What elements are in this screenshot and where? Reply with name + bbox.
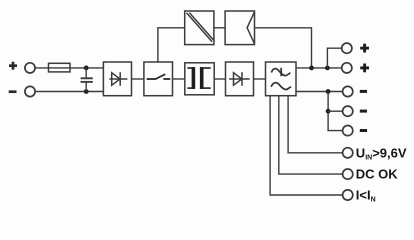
wire input minus line — [35, 91, 103, 93]
capacitor C1 — [81, 68, 93, 92]
wire plus rail — [296, 67, 342, 69]
label + (input plus) — [9, 62, 17, 70]
terminal output +1 — [342, 43, 352, 53]
block U6 feedback box (chevron symbol) — [225, 11, 254, 45]
switch S1 (inside U2) — [147, 74, 171, 79]
wire T1 to U3 — [214, 78, 225, 80]
node minus rail junction 2 — [326, 109, 331, 114]
block U1 input rectifier box — [103, 62, 131, 96]
node junction minus — [84, 89, 89, 94]
node minus rail junction 1 — [326, 89, 331, 94]
symbol diagonal lines (inside U5) — [187, 13, 214, 42]
wire U3 to U4 — [254, 78, 266, 80]
block U5 isolation converter box (diagonal symbol) — [185, 11, 214, 45]
wire U2 top to isolation box — [158, 28, 185, 62]
label - (output 2) — [360, 110, 367, 113]
diode D2 (inside U3) — [229, 72, 250, 86]
diode D1 (inside U1) — [109, 72, 127, 86]
label - (output 3) — [360, 129, 367, 132]
wire U1 to U2 — [132, 78, 144, 80]
svg-text:UIN>9,6V: UIN>9,6V — [356, 145, 407, 161]
wire signal I<In — [270, 96, 343, 195]
terminal input - — [25, 86, 35, 96]
block U4 output filter box — [266, 62, 297, 96]
block T1 transformer box — [185, 63, 214, 95]
terminal output -1 — [343, 86, 353, 96]
wire branch to plus terminal 1 — [327, 48, 341, 68]
terminal input + — [25, 63, 35, 73]
node junction plus — [84, 66, 89, 71]
label + (output 2) — [360, 64, 369, 73]
terminal signal I<In — [343, 190, 353, 200]
label - (output 1) — [360, 90, 367, 93]
symbol chopped sine (inside U4) — [271, 68, 290, 76]
wire minus rail — [296, 91, 343, 93]
wire U2 to T1 — [173, 78, 185, 80]
label + (output 1) — [360, 44, 369, 53]
wire signal Uin — [288, 96, 343, 153]
symbol chevron (inside U6) — [247, 12, 254, 44]
block U2 switching stage box — [144, 62, 173, 96]
wire signal DC OK — [279, 96, 343, 174]
wire branch to minus terminal 2 — [328, 110, 342, 112]
wire minus vertical branch — [328, 92, 342, 131]
terminal output -3 — [343, 126, 353, 136]
fuse F1 — [49, 63, 71, 72]
svg-text:DC OK: DC OK — [356, 167, 399, 182]
wire U6 to output plus rail — [255, 28, 312, 68]
wire U5 to U6 — [214, 27, 225, 29]
node plus rail junction 1 — [309, 66, 314, 71]
terminal signal DC OK — [343, 169, 353, 179]
terminal output -2 — [343, 106, 353, 116]
terminal signal Uin — [343, 148, 353, 158]
wire input plus line — [35, 67, 103, 69]
symbol sine wave (inside U4) — [271, 83, 291, 90]
label - (input minus) — [9, 90, 17, 93]
block U3 output rectifier box — [226, 62, 254, 96]
transformer T1 windings — [187, 67, 210, 89]
node plus rail junction 2 — [325, 66, 330, 71]
terminal output +2 — [342, 63, 352, 73]
